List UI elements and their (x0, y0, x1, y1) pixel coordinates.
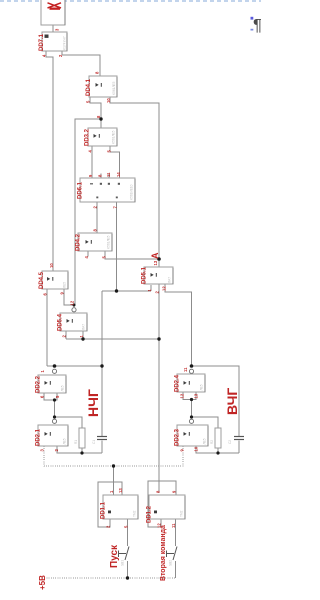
svg-text:13: 13 (118, 488, 123, 493)
svg-text:DD4.2: DD4.2 (76, 233, 82, 251)
svg-text:DD1.2: DD1.2 (147, 505, 153, 523)
svg-text:DD2.3: DD2.3 (175, 428, 181, 446)
svg-text:C1: C1 (92, 440, 96, 444)
svg-text:DD2.2: DD2.2 (36, 375, 42, 393)
svg-text:K561ЛE5: K561ЛE5 (112, 81, 116, 95)
svg-text:K561ЛE5: K561ЛE5 (112, 130, 116, 144)
svg-text:ВЧГ: ВЧГ (224, 388, 240, 415)
svg-text:ЛE5: ЛE5 (61, 385, 65, 391)
svg-text:DD4.5: DD4.5 (39, 271, 45, 289)
svg-text:13: 13 (153, 260, 158, 265)
svg-text:ЛE5: ЛE5 (200, 384, 204, 390)
svg-text:DD1.1: DD1.1 (101, 501, 107, 519)
svg-text:10: 10 (106, 98, 111, 103)
svg-text:K561ИЕ10: K561ИЕ10 (130, 184, 134, 200)
svg-text:R1: R1 (74, 440, 78, 444)
svg-text:Вторая команда: Вторая команда (160, 525, 167, 581)
svg-text:K174YH7: K174YH7 (63, 36, 67, 50)
svg-text:11: 11 (183, 367, 188, 372)
svg-text:ЛE5: ЛE5 (63, 282, 67, 288)
svg-text:DD6.1: DD6.1 (78, 181, 84, 199)
svg-text:DD2.4: DD2.4 (175, 374, 181, 392)
svg-text:ЛА7: ЛА7 (82, 324, 86, 330)
svg-text:R2: R2 (210, 440, 214, 444)
svg-text:ЛE5: ЛE5 (63, 438, 67, 444)
svg-text:SB2: SB2 (169, 560, 173, 566)
svg-text:10: 10 (194, 446, 199, 451)
svg-text:ЛА7: ЛА7 (168, 277, 172, 283)
svg-text:Пуск: Пуск (109, 544, 120, 568)
svg-text:12: 12 (162, 286, 167, 291)
svg-text:TM2: TM2 (133, 510, 137, 517)
svg-text:А: А (150, 252, 160, 259)
svg-text:12: 12 (70, 300, 75, 305)
svg-text:11: 11 (171, 523, 176, 528)
svg-text:13: 13 (194, 393, 199, 398)
svg-text:DD7.1: DD7.1 (39, 33, 45, 51)
svg-text:12: 12 (157, 523, 162, 528)
svg-text:C2: C2 (228, 440, 232, 444)
svg-text:DD3.2: DD3.2 (85, 128, 91, 146)
svg-text:14: 14 (116, 172, 121, 177)
svg-text:DD5.4: DD5.4 (58, 313, 64, 331)
svg-text:ЛE5: ЛE5 (203, 438, 207, 444)
svg-text:K561ЛE5: K561ЛE5 (107, 235, 111, 249)
svg-text:TM2: TM2 (180, 510, 184, 517)
svg-text:12: 12 (180, 393, 185, 398)
svg-text:НЧГ: НЧГ (85, 389, 101, 417)
svg-text:¶: ¶ (253, 16, 261, 35)
svg-text:DD2.1: DD2.1 (36, 428, 42, 446)
svg-text:DD4.1: DD4.1 (86, 78, 92, 96)
svg-text:10: 10 (49, 263, 54, 268)
svg-text:SB1: SB1 (121, 560, 125, 566)
svg-text:DD5.1: DD5.1 (142, 266, 148, 284)
svg-text:+5В: +5В (38, 575, 47, 590)
svg-text:11: 11 (106, 172, 111, 177)
